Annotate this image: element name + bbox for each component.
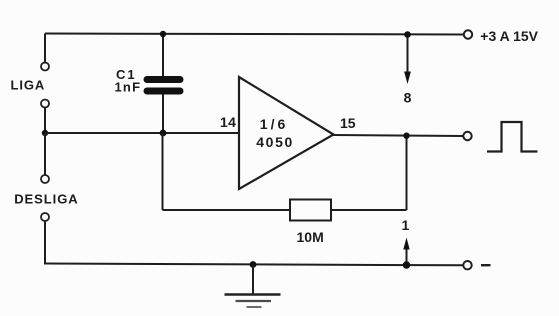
svg-text:14: 14 [220, 114, 236, 130]
svg-text:8: 8 [404, 90, 412, 106]
svg-text:10M: 10M [297, 229, 324, 245]
wire top supply rail [45, 34, 463, 35]
wire from LIGA lower contact to node A [44, 108, 46, 133]
wire feedback bottom right horizontal [331, 209, 407, 211]
terminal +3 A 15V [464, 30, 472, 38]
wire from DESLIGA lower contact to bottom rail [44, 221, 46, 264]
label minus sign [481, 264, 491, 266]
junction dot top rail pin8 [404, 31, 411, 38]
svg-text:1: 1 [402, 217, 410, 233]
junction dot bottom rail pin1 [403, 261, 411, 269]
svg-text:1/6: 1/6 [260, 116, 288, 132]
pulse waveform symbol [487, 122, 538, 152]
pin 1 arrow from bottom rail [403, 238, 409, 266]
wire feedback right vertical to output [406, 136, 408, 211]
wire output [334, 135, 464, 136]
pin 8 arrow from supply rail [404, 35, 411, 85]
terminal minus [463, 261, 471, 269]
wire from capacitor C1 to node B [162, 95, 164, 134]
terminal output [463, 132, 471, 140]
capacitor C1 [147, 80, 180, 92]
output node junction dot [403, 133, 409, 139]
wire feedback bottom left horizontal [163, 209, 291, 211]
wire feedback left vertical [162, 133, 164, 210]
switch DESLIGA contact lower [41, 213, 49, 221]
wire bottom rail [45, 264, 463, 266]
svg-text:4050: 4050 [256, 134, 294, 150]
svg-text:15: 15 [340, 115, 356, 131]
switch LIGA contact lower [41, 100, 49, 108]
svg-text:DESLIGA: DESLIGA [14, 192, 78, 207]
buffer U1 1/6 4050 [239, 77, 334, 189]
wire from top rail down to capacitor C1 [162, 34, 164, 77]
junction dot top rail / C1 [160, 31, 166, 37]
svg-text:+3 A 15V: +3 A 15V [480, 28, 538, 44]
svg-text:LIGA: LIGA [11, 78, 46, 93]
ground [225, 265, 281, 308]
junction dot ground [250, 261, 257, 268]
switch DESLIGA contact upper [41, 175, 49, 183]
resistor 10M [290, 200, 331, 221]
wire from DESLIGA node down [44, 133, 46, 175]
wire from top rail down to LIGA switch [44, 34, 46, 63]
node A junction dot [42, 130, 48, 136]
svg-text:1nF: 1nF [115, 80, 142, 95]
node B junction dot [160, 130, 167, 137]
switch LIGA contact upper [41, 63, 49, 71]
wire input to pin 14 [45, 132, 239, 134]
